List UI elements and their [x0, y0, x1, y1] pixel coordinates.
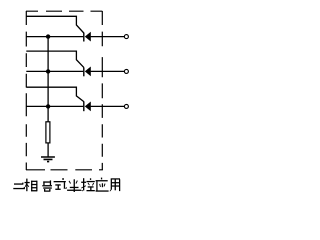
caption character 6: 控	[81, 178, 95, 191]
caption character 3: 零	[42, 180, 52, 191]
cathode wire of thyristor V1	[26, 36, 83, 38]
caption character 5: 半	[67, 179, 81, 192]
junction dot node 3	[46, 104, 50, 108]
thyristor V2 cathode bar	[83, 67, 85, 76]
thyristor V2 anode triangle	[85, 67, 91, 77]
terminal circle 1	[124, 35, 128, 39]
junction dot node 2	[46, 69, 50, 73]
thyristor V1 cathode bar	[83, 33, 85, 42]
common cathode bus wire	[47, 37, 49, 122]
terminal circle 2	[124, 69, 128, 73]
anode wire of thyristor V2	[91, 70, 125, 72]
caption character 4: 式	[54, 178, 67, 190]
dashed enclosure border left	[25, 11, 27, 170]
terminal circle 3	[124, 104, 128, 108]
cathode wire of thyristor V2	[26, 70, 83, 72]
ground symbol	[41, 157, 55, 162]
gate wire of thyristor V3	[26, 87, 84, 101]
gate wire of thyristor V2	[26, 51, 84, 67]
thyristor V3 anode triangle	[85, 102, 91, 112]
cathode wire of thyristor V3	[26, 105, 83, 107]
thyristor V1 anode triangle	[85, 32, 91, 42]
anode wire of thyristor V3	[91, 105, 125, 107]
anode wire of thyristor V1	[91, 36, 125, 38]
caption character 8: 用	[110, 178, 121, 191]
gate wire of thyristor V1	[26, 16, 84, 33]
caption character 7: 应	[96, 178, 109, 192]
dashed enclosure border bottom	[26, 169, 103, 171]
wire resistor to ground	[47, 143, 49, 157]
dashed enclosure border top	[26, 10, 102, 12]
resistor R load	[46, 122, 50, 143]
dashed enclosure border right	[101, 11, 103, 170]
junction dot node 1	[46, 34, 50, 38]
caption character 2: 相	[25, 179, 38, 192]
caption character 1: 二	[13, 183, 25, 190]
thyristor V3 cathode bar	[83, 101, 85, 111]
